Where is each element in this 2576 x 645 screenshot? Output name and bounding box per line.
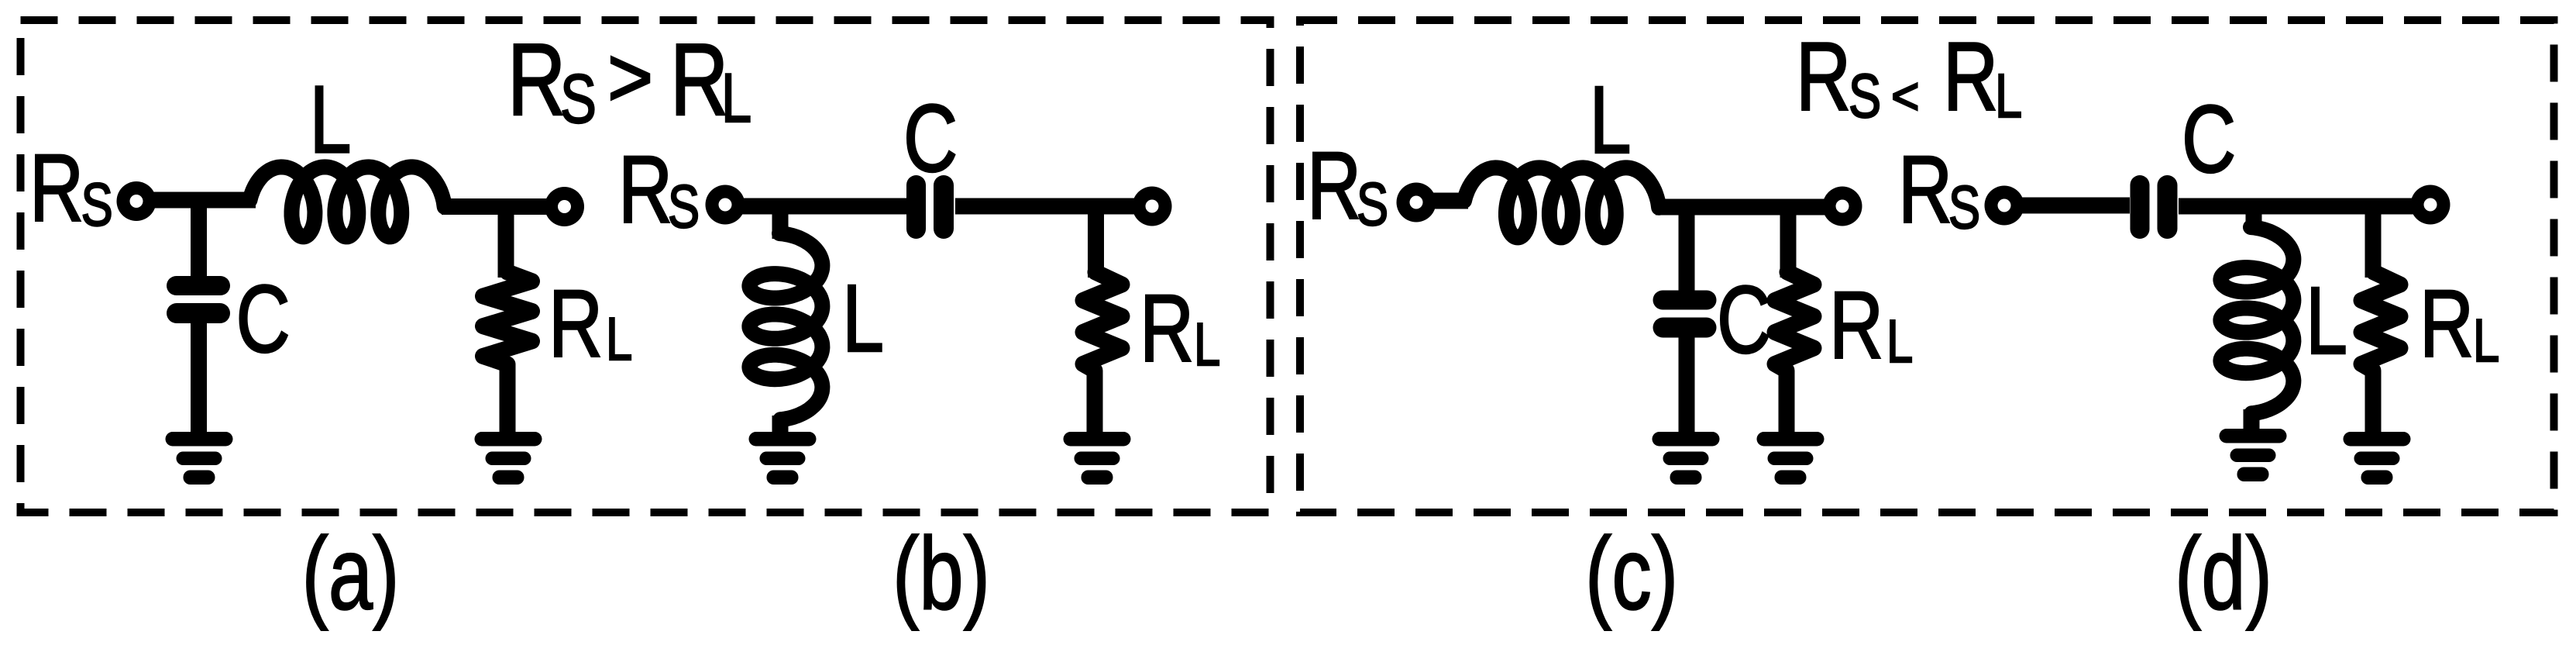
svg-text:C: C [236,267,291,372]
output terminal (a) [545,187,584,226]
input terminal (a) [117,181,156,221]
heading RS < RL [1796,22,2022,131]
resistor RL (d) [2361,272,2400,437]
input terminal (b) [706,185,745,225]
resistor RL (b) [1083,272,1122,437]
capacitor C (c) [1653,291,1717,338]
ground under C (c) [1653,432,1720,485]
capacitor C (b) [906,175,954,239]
svg-text:R: R [618,137,672,243]
svg-text:<: < [1891,67,1920,126]
svg-text:(d): (d) [2175,516,2272,632]
label RL (d) [2420,271,2499,377]
svg-text:R: R [1898,137,1952,243]
output terminal (c) [1823,187,1862,226]
dashed box right: Rs < RL group [1300,20,2554,512]
svg-text:R: R [549,271,603,377]
svg-text:L: L [721,59,751,136]
dashed box left: Rs > RL group [21,20,1271,512]
svg-text:L: L [842,266,884,371]
inductor L (c) [1464,167,1659,237]
svg-text:L: L [606,305,632,373]
wire terminal to cap (b) [735,198,908,215]
heading RS > RL [507,22,751,137]
wire coil exit to ground (b) [772,416,789,436]
svg-text:(a): (a) [302,516,400,632]
ground under RL (a) [475,432,542,485]
wire terminal to node (a) [146,192,256,209]
svg-text:L: L [310,67,352,173]
ground under L (b) [749,432,817,485]
label RL (c) [1829,273,1913,378]
wire C to ground (c) [1679,336,1695,436]
label RL (b) [1140,276,1220,381]
output terminal (d) [2411,185,2450,225]
svg-text:L: L [1995,62,2022,131]
svg-text:>: > [607,29,653,125]
svg-text:C: C [1717,267,1771,373]
ground under RL (c) [1757,432,1825,485]
svg-text:L: L [2473,306,2499,374]
svg-text:L: L [1590,67,1632,173]
wire C to ground (a) [191,322,207,436]
wire cap to output (d) [2179,198,2420,215]
label RS (d) [1898,137,1980,243]
wire coil to output (c) [1656,199,1832,216]
svg-text:S: S [1849,62,1881,131]
inductor L (a) [250,167,445,236]
node stub to L (b) [772,206,789,239]
ground under RL (b) [1064,432,1131,485]
output terminal (b) [1133,187,1172,226]
svg-text:R: R [1829,273,1883,378]
svg-text:R: R [2420,271,2474,377]
svg-text:C: C [2182,87,2236,192]
svg-text:R: R [1796,22,1851,131]
capacitor C (d) [2131,175,2178,239]
svg-text:S: S [560,60,597,137]
label RL (a) [549,271,632,377]
svg-text:S: S [1948,173,1980,241]
shunt inductor L (d) [2220,227,2293,413]
wire cap to output (b) [955,198,1142,215]
svg-text:L: L [1886,307,1913,375]
svg-text:R: R [29,136,84,241]
node stub to RL (b) [1088,206,1104,278]
node stub to RL (c) [1780,202,1797,278]
svg-text:R: R [670,22,728,137]
label RS (b) [618,137,700,243]
wire coil to output (a) [442,198,554,215]
svg-text:L: L [1194,310,1220,378]
node stub to RL (a) [498,202,514,278]
node stub to C (a) [191,195,207,278]
svg-text:R: R [1307,133,1361,239]
svg-text:S: S [1357,170,1388,238]
ground under C (a) [166,432,233,485]
resistor RL (a) [483,272,532,436]
wire terminal to coil (c) [1426,193,1468,209]
node stub to L (d) [2246,206,2262,230]
shunt inductor L (b) [749,233,822,419]
svg-text:C: C [903,86,958,191]
svg-text:S: S [668,172,700,240]
svg-text:R: R [1140,276,1194,381]
label RS (c) [1307,133,1388,239]
svg-text:R: R [507,22,566,137]
input terminal (d) [1985,186,2024,226]
wire terminal to cap (d) [2014,198,2130,214]
svg-text:R: R [1943,22,1998,131]
resistor RL (c) [1775,272,1814,437]
capacitor C (a) [167,276,230,323]
svg-text:L: L [2306,268,2347,374]
svg-text:(b): (b) [892,516,990,632]
svg-text:(c): (c) [1585,516,1678,632]
label RS (a) [29,136,113,241]
node stub to C (c) [1679,202,1695,291]
ground under L (d) [2220,429,2287,481]
ground under RL (d) [2344,432,2411,485]
wire coil exit to ground (d) [2244,409,2260,433]
input terminal (c) [1397,183,1436,222]
svg-text:S: S [81,170,113,238]
node stub to RL (d) [2365,206,2382,278]
